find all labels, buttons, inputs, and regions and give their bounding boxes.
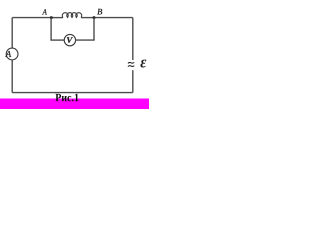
wire: node B to top-right corner xyxy=(94,17,133,19)
wire: inductor to node B xyxy=(81,17,94,19)
wire: voltmeter branch right horizontal xyxy=(75,39,94,41)
label B (node B) xyxy=(97,9,102,15)
wire: top side, corner to node A xyxy=(12,17,51,19)
node A junction dot xyxy=(50,16,53,19)
label A (node A) xyxy=(42,9,47,14)
voltmeter letter V xyxy=(67,37,73,43)
wire: right side upper, corner to AC source gap xyxy=(132,18,134,60)
wire: right side lower, AC source gap to corner xyxy=(132,70,134,92)
ammeter A1 circle xyxy=(6,48,18,60)
magenta caption bar xyxy=(0,99,149,110)
wire: node A to inductor xyxy=(51,17,63,19)
voltmeter U1 circle xyxy=(64,34,75,45)
wire: voltmeter branch left horizontal xyxy=(50,39,64,41)
wire: voltmeter branch left vertical from node A xyxy=(50,18,52,40)
node B junction dot xyxy=(93,16,96,19)
wire: left side upper, corner to ammeter xyxy=(11,18,13,49)
label EMF epsilon xyxy=(140,60,146,68)
wire: voltmeter branch right vertical to node B xyxy=(93,18,95,40)
inductor L (4 loops) between A and B xyxy=(62,13,82,18)
background xyxy=(0,0,149,109)
caption text Рис.1 xyxy=(55,94,78,102)
ammeter letter A xyxy=(5,51,11,57)
AC source lower tilde xyxy=(128,65,134,68)
AC source upper tilde xyxy=(128,62,134,63)
wire: left side lower, ammeter to corner xyxy=(11,60,13,93)
wire: bottom side xyxy=(12,92,133,94)
